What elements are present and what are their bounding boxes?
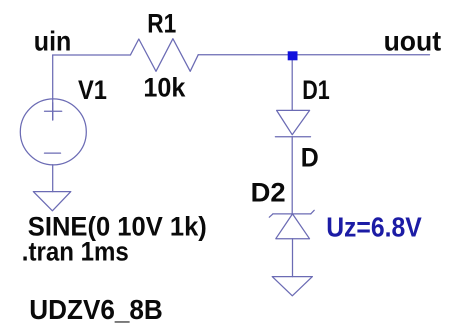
- wire D2 to ground: [292, 239, 294, 277]
- diode D1: [275, 110, 310, 136]
- resistor R1: [131, 39, 199, 72]
- svg-text:D: D: [301, 142, 319, 172]
- svg-text:uin: uin: [34, 25, 72, 56]
- voltage source V1: [20, 99, 86, 165]
- ground right: [272, 277, 312, 296]
- svg-text:R1: R1: [147, 9, 176, 39]
- svg-text:D1: D1: [302, 75, 330, 105]
- svg-text:V1: V1: [78, 75, 107, 105]
- wire uin vertical: [52, 55, 54, 120]
- svg-text:10k: 10k: [143, 72, 186, 102]
- wire horizontal left: [53, 54, 131, 56]
- wire V1 to ground: [52, 165, 54, 192]
- ground left: [33, 192, 71, 211]
- wire node to D1: [291, 56, 293, 110]
- svg-text:UDZV6_8B: UDZV6_8B: [29, 294, 163, 325]
- junction node: [288, 51, 298, 60]
- svg-text:Uz=6.8V: Uz=6.8V: [326, 211, 422, 242]
- wire D1 to D2: [291, 137, 293, 214]
- svg-text:.tran 1ms: .tran 1ms: [22, 237, 129, 267]
- svg-text:D2: D2: [251, 178, 286, 208]
- wire horizontal right: [198, 54, 429, 56]
- zener diode D2: [269, 210, 314, 238]
- svg-text:uout: uout: [384, 25, 442, 56]
